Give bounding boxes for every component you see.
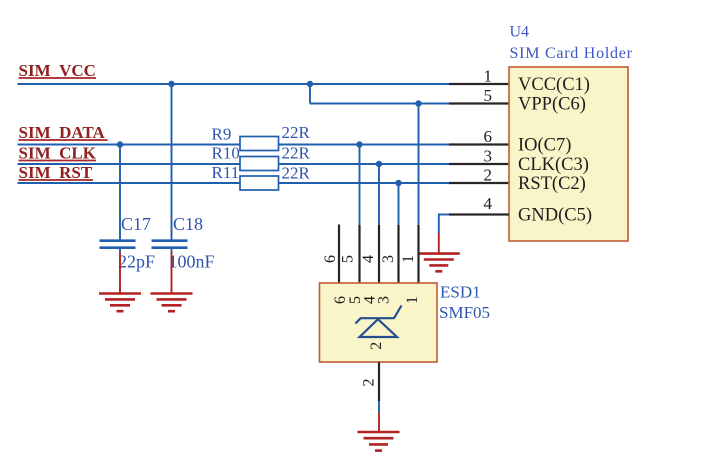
wire RST drop to ESD1 pin3 (blue) — [398, 183, 400, 225]
svg-text:22R: 22R — [282, 123, 311, 142]
junction node DATA/IO drop — [356, 141, 362, 147]
svg-text:3: 3 — [484, 147, 493, 166]
svg-text:5: 5 — [484, 86, 493, 105]
resistor R10 — [240, 157, 279, 171]
wire GND pin vertical (red stem) — [438, 233, 440, 254]
svg-text:CLK(C3): CLK(C3) — [518, 155, 589, 175]
capacitor C18 — [152, 241, 188, 254]
wire VPP drop to ESD1 pin1 (blue) — [418, 104, 420, 226]
svg-text:GND(C5): GND(C5) — [518, 206, 592, 226]
net label SIM_DATA — [19, 123, 108, 142]
wire C17 vertical — [119, 145, 121, 240]
svg-text:R11: R11 — [212, 163, 240, 182]
junction node DATA/C17 — [117, 141, 123, 147]
ESD1 pin 3 stub — [397, 225, 399, 284]
wire C18 to ground (red stem) — [171, 253, 173, 294]
svg-text:22R: 22R — [282, 144, 311, 163]
net label SIM_CLK — [19, 144, 97, 163]
wire VCC to VPP vertical — [309, 84, 311, 104]
svg-text:100nF: 100nF — [169, 252, 215, 272]
diode array ESD1 box — [320, 283, 438, 362]
svg-text:VPP(C6): VPP(C6) — [518, 95, 586, 115]
junction node VPP/ESD1 pin1 drop — [415, 100, 421, 106]
wire SIM_DATA right segment — [279, 144, 450, 146]
svg-text:ESD1: ESD1 — [440, 283, 481, 302]
svg-text:2: 2 — [484, 166, 493, 185]
svg-text:2: 2 — [361, 379, 378, 387]
ESD1 pin 1 stub — [417, 225, 419, 284]
pin 4 stub U4 (GND) — [439, 214, 449, 216]
wire ESD1 pin2 to ground (red stem) — [378, 413, 380, 432]
ESD1 pin 6 stub — [338, 225, 340, 284]
wire SIM_CLK left segment — [18, 163, 241, 165]
svg-text:C18: C18 — [173, 214, 203, 234]
wire IO drop to ESD1 pin5 (blue) — [359, 145, 361, 226]
ESD1 pin 5 stub — [358, 225, 360, 284]
wire C17 to ground (red stem) — [119, 253, 121, 294]
ground (below C17) — [99, 294, 141, 312]
svg-text:U4: U4 — [510, 24, 530, 41]
svg-text:3: 3 — [376, 296, 393, 304]
pin 1 stub U4 — [449, 83, 509, 85]
svg-text:1: 1 — [484, 67, 493, 86]
svg-text:IO(C7): IO(C7) — [518, 136, 571, 156]
junction node CLK/ESD drop — [376, 161, 382, 167]
svg-text:3: 3 — [380, 255, 397, 263]
svg-text:1: 1 — [400, 255, 417, 263]
wire SIM_DATA left segment — [18, 144, 241, 146]
junction node VCC/C18 — [168, 81, 174, 87]
IC U4 SIM Card Holder box — [509, 67, 628, 241]
svg-text:R9: R9 — [212, 125, 232, 144]
ESD1 pin 2 stub — [378, 362, 380, 401]
svg-text:6: 6 — [484, 127, 493, 146]
wire CLK drop to ESD1 pin4 (blue) — [378, 164, 380, 225]
svg-text:C17: C17 — [121, 214, 151, 234]
svg-text:22R: 22R — [282, 164, 311, 183]
svg-text:6: 6 — [322, 255, 339, 263]
pin 3 stub U4 — [449, 163, 509, 165]
capacitor C17 — [100, 241, 136, 254]
junction node RST/ESD drop — [395, 180, 401, 186]
svg-text:VCC(C1): VCC(C1) — [518, 75, 590, 95]
wire GND pin vertical (blue) — [438, 214, 440, 234]
ground (U4 pin 4) — [418, 254, 460, 272]
wire SIM_CLK right segment — [279, 163, 450, 165]
svg-text:SIM Card Holder: SIM Card Holder — [510, 45, 633, 62]
wire C18 vertical — [171, 84, 173, 240]
ESD1 pin 4 stub — [378, 225, 380, 284]
wire SIM_RST left segment — [18, 182, 241, 184]
pin 2 stub U4 — [449, 182, 509, 184]
svg-text:5: 5 — [340, 255, 357, 263]
junction node VCC/VPP drop — [307, 81, 313, 87]
resistor R9 — [240, 137, 279, 151]
svg-text:4: 4 — [484, 194, 493, 213]
svg-text:22pF: 22pF — [118, 252, 155, 272]
svg-text:2: 2 — [368, 342, 385, 350]
svg-text:1: 1 — [404, 296, 421, 304]
svg-text:R10: R10 — [212, 144, 240, 163]
wire SIM_VCC rail — [18, 83, 450, 85]
ground (below ESD1) — [358, 432, 400, 451]
svg-text:RST(C2): RST(C2) — [518, 174, 586, 194]
pin 5 stub U4 — [449, 102, 509, 104]
net label SIM_RST — [19, 163, 94, 182]
svg-text:SMF05: SMF05 — [439, 303, 490, 322]
svg-text:4: 4 — [360, 255, 377, 263]
wire ESD1 pin2 (blue) — [378, 401, 380, 413]
resistor R11 — [240, 176, 279, 190]
wire SIM_RST right segment — [279, 182, 450, 184]
wire VPP rail — [310, 103, 449, 105]
ground (below C18) — [151, 294, 193, 312]
zener diode symbol (inside ESD1) — [356, 306, 402, 338]
pin 6 stub U4 — [449, 143, 509, 145]
net label SIM_VCC — [19, 61, 97, 80]
